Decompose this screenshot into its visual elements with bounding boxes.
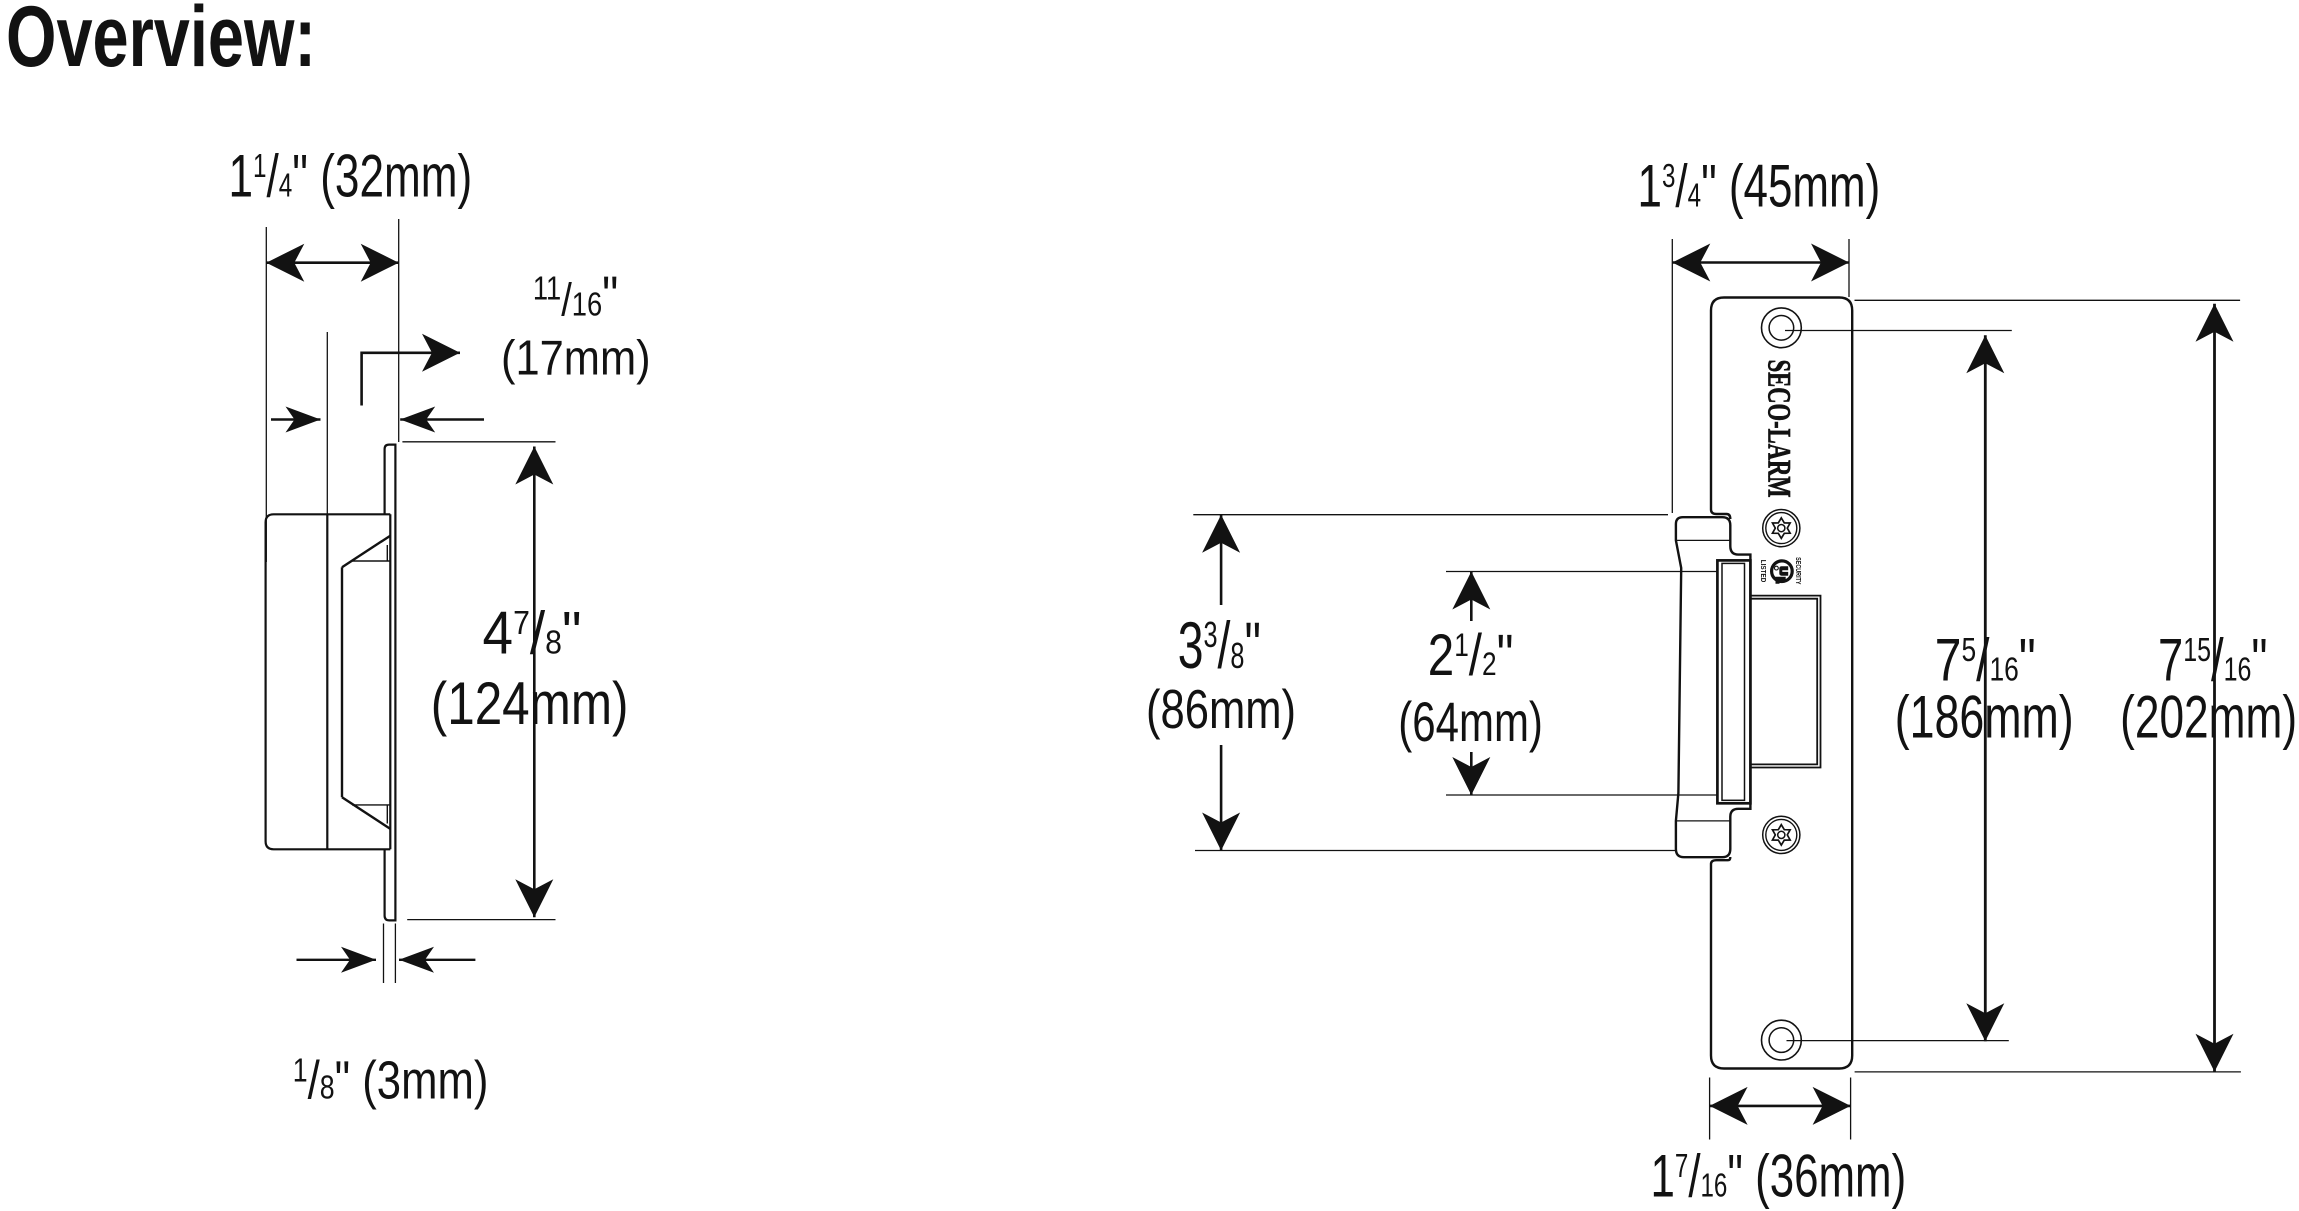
extension line plate bottom right (202mm dim): [1855, 1071, 2241, 1073]
svg-text:SECURITY: SECURITY: [1794, 557, 1801, 585]
dimension line 186mm: [1984, 335, 1987, 1041]
extension line left (32mm dim): [265, 227, 267, 562]
dimension arrow 36mm: [1710, 1105, 1851, 1108]
svg-text:(186mm): (186mm): [1895, 684, 2074, 751]
SECO-LARM label: [1761, 360, 1797, 498]
dimension line 86mm lower: [1220, 745, 1223, 851]
keeper inner horizontal bottom: [352, 804, 390, 806]
body divider line: [326, 514, 328, 849]
screw hole bottom: [1762, 1020, 1802, 1060]
faceplate side view: [385, 445, 396, 921]
leader line bottom screw (186mm dim): [1787, 1040, 2009, 1042]
extension line inner (17mm dim): [326, 332, 328, 514]
dimension line 86mm upper: [1220, 515, 1223, 605]
svg-text:LISTED: LISTED: [1759, 560, 1768, 583]
keeper front edge: [341, 567, 343, 797]
svg-text:33/8": 33/8": [1178, 608, 1261, 682]
svg-text:47/8": 47/8": [483, 600, 582, 667]
keeper cavity inner: [1750, 599, 1817, 765]
keeper bottom diagonal: [342, 797, 390, 829]
extension line below plate right (3mm dim): [394, 924, 396, 984]
leader line top screw (186mm dim): [1785, 330, 2012, 332]
plate edge hook bottom: [1711, 857, 1730, 864]
extension line right (32mm dim): [398, 219, 400, 442]
keeper inner vertical bottom: [386, 805, 388, 824]
extension line bottom (86mm dim): [1195, 850, 1676, 852]
dimension line 64mm lower: [1470, 752, 1473, 795]
extension line plate top right (202mm dim): [1855, 299, 2241, 301]
dimension arrow 45mm: [1672, 261, 1849, 264]
arrow 3mm right: [399, 959, 475, 961]
extension line top (86mm dim): [1193, 514, 1668, 516]
faceplate front view: [1711, 298, 1852, 1069]
latch box inner: [1722, 563, 1745, 800]
extension line bottom (124mm dim): [407, 919, 555, 921]
extension line top (64mm dim): [1446, 571, 1717, 573]
torx screw top: [1763, 509, 1800, 546]
plate edge hook top: [1711, 510, 1730, 520]
svg-text:(64mm): (64mm): [1398, 690, 1543, 753]
keeper top diagonal: [342, 536, 390, 568]
extension line below plate left (36mm dim): [1709, 1078, 1711, 1140]
extension line right (45mm dim): [1848, 239, 1850, 297]
keeper opening edge at plate: [389, 514, 391, 849]
svg-text:(202mm): (202mm): [2120, 684, 2297, 751]
arrow 17mm left: [271, 418, 321, 420]
svg-text:(17mm): (17mm): [501, 332, 651, 386]
extension line left (45mm dim): [1671, 239, 1673, 513]
lip cap line bottom: [1676, 820, 1730, 822]
arrow 3mm left: [297, 959, 377, 961]
keeper inner vertical top: [386, 545, 388, 561]
torx screw bottom: [1763, 816, 1800, 853]
arrow 17mm right: [400, 418, 484, 420]
svg-text:Overview:: Overview:: [6, 0, 316, 85]
UL listed logo: [1759, 557, 1801, 585]
extension line below plate left (3mm dim): [383, 924, 385, 984]
dimension line 64mm upper: [1470, 572, 1473, 622]
extension line bottom (64mm dim): [1446, 794, 1717, 796]
dimension line 124mm: [533, 447, 536, 918]
keeper inner horizontal top: [351, 560, 390, 562]
svg-text:SECO-LARM: SECO-LARM: [1761, 360, 1797, 498]
leader arrow 17mm: [362, 353, 460, 406]
svg-text:(124mm): (124mm): [431, 670, 629, 737]
svg-text:17/16" (36mm): 17/16" (36mm): [1651, 1143, 1907, 1210]
keeper lip front view: [1676, 517, 1751, 857]
svg-text:(86mm): (86mm): [1146, 678, 1296, 740]
lip cap line top: [1676, 539, 1730, 541]
extension line top (124mm dim): [402, 441, 555, 443]
svg-text:21/2": 21/2": [1428, 623, 1514, 688]
screw hole top: [1762, 308, 1802, 348]
keeper cavity outer: [1750, 596, 1820, 768]
dimension arrow 32mm: [266, 261, 398, 264]
dimension line 202mm: [2213, 304, 2216, 1072]
extension line below plate right (36mm dim): [1850, 1078, 1852, 1140]
latch box outer: [1717, 560, 1750, 803]
strike body side view: [266, 514, 391, 849]
